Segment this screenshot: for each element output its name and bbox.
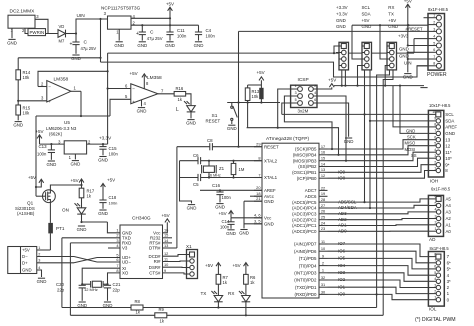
svg-text:3: 3 [434,283,436,287]
svg-text:+5V: +5V [205,263,213,268]
svg-text:C5: C5 [193,182,199,187]
svg-text:12: 12 [164,251,168,256]
svg-text:15: 15 [321,156,325,161]
svg-text:+5V: +5V [404,0,412,4]
svg-text:GND: GND [165,43,175,48]
svg-text:3: 3 [435,214,437,218]
svg-text:+5V: +5V [219,211,227,216]
svg-text:25: 25 [321,215,325,220]
svg-text:2: 2 [322,261,324,266]
svg-text:1: 1 [295,84,297,88]
svg-text:ADC6: ADC6 [305,194,317,199]
svg-text:DSR#: DSR# [149,265,161,270]
svg-text:Q1: Q1 [27,201,34,206]
svg-text:4: 4 [314,91,316,95]
svg-text:IOH: IOH [430,178,438,183]
svg-text:Vcc: Vcc [264,216,272,221]
svg-text:A0: A0 [446,229,452,234]
svg-text:+5V: +5V [35,129,43,134]
svg-text:+: + [136,31,139,37]
svg-text:GND: GND [227,126,237,131]
svg-text:1: 1 [433,14,435,18]
svg-text:UIN: UIN [77,13,86,19]
svg-text:RI#: RI# [154,259,161,264]
svg-text:RESET: RESET [264,144,279,149]
svg-text:4, 6: 4, 6 [254,213,261,218]
svg-text:10k: 10k [252,94,260,99]
svg-text:GND: GND [399,47,409,52]
svg-text:AREF: AREF [264,188,276,193]
svg-text:RX: RX [388,5,394,10]
svg-text:LM358: LM358 [147,75,162,81]
svg-text:21: 21 [256,196,260,201]
svg-text:3: 3 [434,154,436,158]
svg-text:6: 6 [434,136,436,140]
svg-text:RX: RX [228,291,234,296]
svg-text:100n: 100n [37,152,47,157]
svg-text:+5V: +5V [328,77,336,82]
svg-text:GND: GND [445,131,455,136]
svg-text:100n: 100n [220,224,230,229]
svg-text:GND: GND [137,43,147,48]
svg-text:4: 4 [434,277,436,281]
svg-text:2: 2 [434,161,436,165]
svg-text:X1: X1 [186,244,192,249]
svg-text:2: 2 [435,221,437,225]
svg-text:GND: GND [399,53,409,58]
svg-text:POWER: POWER [427,72,447,78]
svg-text:4: 4 [434,148,436,152]
svg-text:SCL: SCL [362,5,371,10]
svg-text:+5V: +5V [166,2,174,7]
svg-text:(ADC1)/PC1: (ADC1)/PC1 [292,223,317,228]
svg-text:9*: 9* [445,162,449,167]
svg-text:GND: GND [47,162,57,167]
svg-text:TX: TX [388,12,394,17]
svg-text:RESET: RESET [206,118,221,123]
svg-text:R8: R8 [135,299,141,304]
svg-text:SDA: SDA [445,119,454,124]
svg-text:16: 16 [321,150,325,155]
svg-text:A4: A4 [446,203,452,208]
svg-text:CTS#: CTS# [149,271,161,276]
svg-text:C15: C15 [109,146,118,151]
svg-text:A3: A3 [446,210,452,215]
svg-text:9: 9 [164,268,166,273]
svg-text:100n: 100n [109,152,119,157]
svg-text:13: 13 [164,243,168,248]
svg-text:GND: GND [406,128,415,133]
svg-text:22p: 22p [113,288,121,293]
svg-text:3: 3 [295,91,297,95]
svg-text:23: 23 [321,226,325,231]
svg-text:32: 32 [321,275,325,280]
svg-text:GND: GND [77,227,87,232]
svg-text:6*: 6* [447,260,451,265]
svg-text:ON: ON [62,208,69,213]
svg-text:MOSI: MOSI [405,147,416,152]
svg-text:GND: GND [336,18,346,23]
svg-text:GND: GND [215,205,225,210]
svg-text:−: − [132,87,135,92]
svg-text:D+: D+ [22,261,28,266]
svg-text:7: 7 [258,172,260,177]
svg-text:(ADC4)/PC4: (ADC4)/PC4 [292,206,317,211]
svg-text:(SS)/PB2: (SS)/PB2 [298,164,317,169]
svg-text:DTR#: DTR# [149,246,161,251]
svg-text:L: L [176,107,179,113]
svg-text:11: 11 [164,256,168,261]
svg-text:(A1SHB): (A1SHB) [17,211,35,216]
svg-text:(MISO)/PB4: (MISO)/PB4 [293,153,317,158]
svg-text:ADC7: ADC7 [305,188,317,193]
svg-text:C6: C6 [193,153,199,158]
svg-text:GND: GND [187,206,197,211]
svg-text:+5V: +5V [233,263,241,268]
svg-text:GND: GND [403,75,413,80]
svg-text:8: 8 [258,156,260,161]
svg-text:5: 5 [295,98,297,102]
svg-text:+: + [132,99,135,104]
svg-text:GND: GND [264,199,274,204]
svg-text:(*) DIGITAL PWM: (*) DIGITAL PWM [415,317,456,323]
svg-text:(T0)/PD4: (T0)/PD4 [299,263,317,268]
svg-text:3x2M: 3x2M [298,109,309,114]
svg-text:LM358: LM358 [54,76,69,82]
svg-text:+: + [48,99,51,104]
svg-text:XTAL2: XTAL2 [264,158,278,163]
svg-text:GND: GND [71,162,81,167]
svg-text:GND: GND [344,139,354,144]
svg-text:4: 4 [435,208,437,212]
svg-text:19: 19 [321,191,325,196]
svg-text:4: 4 [433,35,435,39]
svg-text:9: 9 [322,253,324,258]
svg-text:1: 1 [38,246,40,250]
svg-text:6: 6 [434,265,436,269]
svg-text:+5V: +5V [71,178,79,183]
svg-text:5: 5 [434,142,436,146]
svg-text:(662K): (662K) [49,132,63,137]
svg-text:13: 13 [445,137,450,142]
svg-text:12: 12 [445,143,450,148]
svg-text:R16: R16 [176,86,184,91]
svg-text:3: 3 [38,259,40,263]
svg-text:11*: 11* [445,150,452,155]
svg-text:A2: A2 [446,216,452,221]
svg-text:GND: GND [71,56,81,61]
svg-text:11: 11 [321,239,325,244]
svg-text:1M: 1M [239,167,245,172]
svg-text:GND: GND [186,121,196,126]
svg-text:5*: 5* [447,267,451,272]
svg-text:(RXD)/PD0: (RXD)/PD0 [295,292,318,297]
svg-text:SS: SS [411,153,417,158]
svg-text:6: 6 [116,257,118,262]
svg-text:C18: C18 [109,195,117,200]
svg-text:8: 8 [433,62,435,66]
svg-text:+5V: +5V [107,178,115,183]
svg-text:+3.3V: +3.3V [336,5,348,10]
svg-text:12: 12 [321,173,325,178]
svg-text:22: 22 [321,185,325,190]
svg-text:GND: GND [336,24,346,29]
svg-text:GND: GND [98,211,108,216]
svg-text:+3.3V: +3.3V [336,12,348,17]
svg-text:CH340G: CH340G [132,216,151,222]
svg-text:ICSP: ICSP [298,77,309,83]
svg-text:PT1: PT1 [56,226,65,231]
svg-text:SCK: SCK [407,135,416,140]
svg-text:10x1F-H8.5: 10x1F-H8.5 [429,103,451,108]
svg-text:2: 2 [433,21,435,25]
svg-text:C13: C13 [39,144,48,149]
svg-text:C: C [150,30,154,36]
svg-text:+5V: +5V [388,18,396,23]
svg-text:12 MHz: 12 MHz [84,287,98,292]
svg-text:V3: V3 [122,246,128,251]
svg-text:+: + [70,42,73,48]
svg-text:10*: 10* [445,156,452,161]
svg-text:2: 2 [314,84,316,88]
svg-text:13: 13 [321,167,325,172]
svg-text:22p: 22p [57,288,65,293]
svg-text:7: 7 [434,129,436,133]
svg-text:R9: R9 [159,307,165,312]
svg-text:16 MHz: 16 MHz [208,174,221,178]
svg-text:47µ 25V: 47µ 25V [147,36,163,41]
svg-text:6: 6 [433,48,435,52]
svg-text:26: 26 [321,209,325,214]
svg-text:+3,3V: +3,3V [99,135,112,140]
svg-text:A1: A1 [446,222,452,227]
svg-text:PWRIN: PWRIN [30,30,45,35]
svg-text:(ICP)/PB0: (ICP)/PB0 [297,176,317,181]
svg-text:ATmega328 (TQFP): ATmega328 (TQFP) [266,136,309,142]
svg-text:C4: C4 [206,28,212,33]
svg-text:C8: C8 [207,138,213,143]
svg-text:(AIN1)/PD7: (AIN1)/PD7 [294,242,317,247]
svg-text:(INT1)/PD3: (INT1)/PD3 [294,271,317,276]
svg-text:47µ 25V: 47µ 25V [81,46,97,51]
svg-text:5: 5 [434,271,436,275]
svg-text:VD: VD [59,24,65,29]
svg-text:C21: C21 [113,282,121,287]
svg-text:8x1F-H8.5: 8x1F-H8.5 [430,246,450,251]
svg-text:+5V: +5V [257,70,265,75]
svg-text:(T1)/PD5: (T1)/PD5 [299,256,317,261]
svg-text:(OSC1)/PB1: (OSC1)/PB1 [292,170,317,175]
svg-text:2: 2 [434,289,436,293]
svg-text:NCP1117ST50T3G: NCP1117ST50T3G [101,6,141,11]
svg-text:(INT0)/PD2: (INT0)/PD2 [294,278,317,283]
svg-text:31: 31 [321,282,325,287]
svg-text:3: 3 [433,27,435,31]
svg-text:7: 7 [433,55,435,59]
svg-text:D−: D− [22,254,28,259]
svg-text:SDA: SDA [362,12,371,17]
svg-text:GND: GND [22,268,32,273]
svg-text:27: 27 [321,203,325,208]
svg-text:5: 5 [433,41,435,45]
svg-text:GND: GND [226,231,236,236]
svg-text:3*: 3* [447,279,451,284]
svg-text:GND: GND [239,231,249,236]
svg-text:6x1F-H8.5: 6x1F-H8.5 [431,187,451,192]
svg-text:+5V: +5V [28,175,36,180]
svg-text:(AIN0)/PD6: (AIN0)/PD6 [294,249,317,254]
svg-text:DCD#: DCD# [149,254,162,259]
svg-text:+5V: +5V [22,248,30,253]
svg-text:C11: C11 [177,28,185,33]
svg-text:3, 5: 3, 5 [254,219,261,224]
svg-text:U5: U5 [64,120,70,125]
svg-text:GND: GND [37,279,47,284]
svg-text:UD−: UD− [122,260,131,265]
svg-text:1: 1 [322,268,324,273]
svg-text:1: 1 [434,166,436,170]
svg-text:GND: GND [7,40,17,45]
svg-text:AREF: AREF [445,125,457,130]
svg-text:(ADC5)/PC5: (ADC5)/PC5 [292,200,317,205]
svg-text:GND: GND [98,158,108,163]
svg-text:+5V: +5V [162,213,170,218]
svg-text:8: 8 [434,123,436,127]
svg-text:GND: GND [194,43,204,48]
svg-text:C20: C20 [56,282,64,287]
svg-text:100n: 100n [222,195,232,200]
svg-text:29: 29 [256,142,260,147]
svg-text:(ADC2)/PC2: (ADC2)/PC2 [292,217,317,222]
svg-text:+5V: +5V [130,71,138,76]
svg-text:IOL: IOL [429,307,437,312]
svg-text:GND: GND [137,109,147,114]
svg-text:−: − [48,85,51,90]
svg-text:(SCK)/PB5: (SCK)/PB5 [295,147,317,152]
svg-text:4: 4 [38,266,40,270]
svg-text:Z1: Z1 [219,166,225,171]
svg-text:C16: C16 [212,183,221,188]
svg-text:(TXD)/PD1: (TXD)/PD1 [295,285,317,290]
svg-text:MISO: MISO [405,141,416,146]
svg-text:+5V: +5V [362,18,370,23]
svg-text:XO: XO [122,271,129,276]
svg-text:M7: M7 [59,39,65,44]
svg-text:1: 1 [435,227,437,231]
svg-text:10k: 10k [23,75,31,80]
svg-text:GND: GND [264,222,274,227]
svg-text:6: 6 [314,98,316,102]
svg-text:100n: 100n [109,200,118,205]
svg-text:LM6206-3.3 N3: LM6206-3.3 N3 [46,126,77,131]
svg-text:C: C [84,40,88,46]
svg-text:GND: GND [114,43,124,48]
svg-text:AD: AD [429,237,436,242]
svg-text:8x1F-H8.5: 8x1F-H8.5 [428,7,449,12]
svg-text:100n: 100n [206,34,216,39]
svg-text:2: 2 [38,252,40,256]
svg-text:1: 1 [434,296,436,300]
svg-text:100n: 100n [177,34,187,39]
svg-text:XTAL1: XTAL1 [264,175,278,180]
svg-text:28: 28 [321,197,325,202]
svg-text:10k: 10k [23,110,31,115]
svg-text:(MOSI)/PB3: (MOSI)/PB3 [293,158,317,163]
svg-text:SCL: SCL [445,112,454,117]
svg-text:(ADC3)/PC3: (ADC3)/PC3 [292,212,317,217]
svg-text:17: 17 [321,144,325,149]
svg-text:A5: A5 [446,197,452,202]
svg-text:(ADC0)/PC0: (ADC0)/PC0 [292,229,317,234]
svg-text:DC2.1MMX: DC2.1MMX [10,8,36,14]
svg-text:GND: GND [13,123,23,128]
svg-text:TX: TX [201,291,207,296]
